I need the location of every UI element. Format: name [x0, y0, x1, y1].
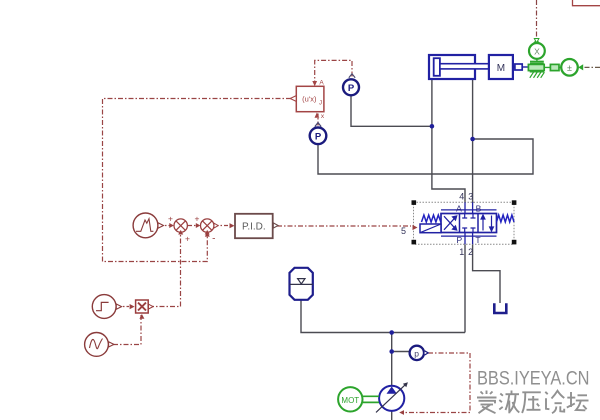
wire: PID output to proportional valve input 5 — [277, 225, 411, 227]
svg-text:(u'x): (u'x) — [302, 95, 317, 104]
wire: pipe valve port 1 down to supply line — [464, 245, 466, 333]
svg-text:5: 5 — [401, 226, 406, 236]
component: partially visible block at top-right corner — [573, 0, 600, 6]
component: displacement sensor X — [529, 40, 545, 61]
proportional rails — [441, 210, 497, 236]
svg-text:MOT: MOT — [341, 396, 359, 405]
component: wave signal source — [133, 213, 163, 238]
svg-text:p: p — [414, 349, 419, 359]
component: summing junction S1 — [168, 214, 190, 244]
component: sine signal source — [85, 333, 114, 357]
svg-text:J: J — [319, 101, 322, 107]
port stubs — [465, 202, 473, 244]
wire: displacement sensor X output to top edge — [536, 0, 538, 42]
wire: pressure sensor P2 to function block bottom — [317, 114, 319, 126]
wire: sine source to multiplier bottom — [113, 315, 141, 345]
svg-text:1: 1 — [459, 247, 464, 257]
wire: pipe valve port 2 to tank — [473, 245, 500, 304]
char lun — [545, 392, 547, 394]
wire: pressure sensor P2 tap line — [318, 139, 533, 174]
wire: branch to pressure transducer — [392, 351, 410, 353]
component: pressure transducer at pump outlet — [410, 346, 429, 360]
char tan — [567, 397, 575, 399]
svg-text:+: + — [195, 214, 200, 224]
arrow into summer S2 from below — [205, 232, 210, 237]
component: PID controller — [230, 214, 279, 238]
component: step signal source — [92, 295, 121, 319]
component: mass block M — [489, 55, 529, 79]
wire: step source to multiplier — [117, 306, 129, 308]
component: proportional 4/3 directional valve U — [413, 202, 515, 245]
svg-text:P: P — [315, 132, 322, 143]
svg-text:T: T — [475, 235, 480, 245]
component: summing junction S2 — [195, 214, 219, 245]
node: junction pump riser / supply line — [389, 330, 394, 335]
spring left — [422, 215, 441, 222]
arrow pump displacement control — [399, 410, 404, 415]
svg-text:P: P — [348, 83, 355, 94]
svg-text:3: 3 — [468, 192, 473, 202]
wire: pipe cylinder port B down to valve port 3 — [472, 79, 474, 203]
component: multiplier — [130, 300, 154, 319]
component: pressure sensor P1 — [343, 74, 359, 96]
right cell straight arrows — [481, 215, 493, 231]
arrow: green arrowhead into sensor X from above (direction down) — [534, 39, 539, 43]
char ya — [522, 391, 541, 393]
component: damper / friction block to ground — [528, 62, 544, 71]
component: tank — [494, 303, 506, 313]
component: pressure sensor P2 — [310, 123, 327, 145]
svg-text:P.I.D.: P.I.D. — [242, 222, 266, 233]
component: selection frame around valve — [412, 200, 517, 244]
proportional solenoid — [420, 224, 441, 233]
valve body three cells — [441, 214, 497, 233]
char ye — [499, 394, 503, 410]
svg-text:4: 4 — [459, 192, 464, 202]
component: function block f(u,x) — [290, 80, 325, 121]
ground: hatching under damper — [530, 72, 545, 78]
wire: multiplier output to summer S1 bottom — [149, 234, 181, 307]
left cell crossed arrows — [444, 216, 457, 230]
svg-text:+: + — [185, 234, 190, 244]
watermark: Chinese characters (vector approximation) — [477, 391, 589, 414]
svg-text:M: M — [497, 63, 505, 74]
node: junction riser / transducer branch — [389, 349, 394, 354]
component: hydraulic cylinder — [429, 55, 489, 79]
char ai — [481, 391, 493, 395]
node: junction pipe A / sensor P1 — [430, 124, 435, 129]
svg-text:BBS.IYEYA.CN: BBS.IYEYA.CN — [477, 368, 590, 390]
node: junction pipe B / sensor P2 — [470, 137, 475, 142]
component: force source — [561, 59, 583, 76]
svg-text:B: B — [476, 204, 482, 214]
wire: summer S2 to PID — [215, 225, 234, 227]
wire: pump outlet riser — [391, 333, 393, 386]
wire: wave source to summer S1 — [158, 225, 172, 227]
wire: feedback from function block f(u,x) to summer S2 — [103, 99, 292, 262]
wire: summer S1 to summer S2 — [188, 225, 199, 227]
svg-text:2: 2 — [468, 247, 473, 257]
wire: external force command from right edge — [581, 66, 600, 68]
wire: pressure transducer to pump displacement control — [405, 353, 470, 413]
spring right — [497, 215, 515, 222]
svg-text:P: P — [456, 235, 462, 245]
centre cell blocked ports — [462, 214, 475, 233]
wire: pump suction line — [391, 411, 393, 420]
svg-text:A: A — [456, 204, 462, 214]
svg-text:±: ± — [567, 63, 572, 73]
svg-text:X: X — [534, 46, 540, 56]
svg-text:A: A — [319, 80, 324, 87]
component: accumulator — [290, 268, 313, 300]
input arrow at pin 5 — [413, 225, 418, 230]
component: variable displacement pump — [376, 382, 408, 412]
wire: supply line from accumulator to valve port 1 — [301, 301, 465, 333]
wire: pressure sensor P1 to function block top — [315, 60, 352, 82]
component: link rod to force source — [544, 64, 561, 70]
svg-text:-: - — [212, 234, 215, 245]
wire: pressure sensor P1 tap line — [351, 96, 431, 126]
svg-text:+: + — [168, 214, 173, 224]
component: electric motor MOT — [338, 387, 379, 411]
wire: pipe cylinder port A down to valve port 4 — [432, 79, 465, 203]
